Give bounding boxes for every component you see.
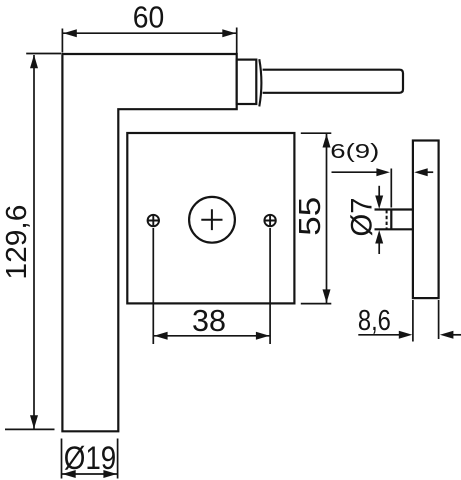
dimension 6(9) extension line at stub face [390,169,392,208]
side view rosette plate [413,141,439,299]
dimension 6(9) line left part with right arrow [332,171,378,173]
dimension 38 arrows [154,332,168,340]
dimension 55 extension lines [301,133,332,303]
side view hub stub outline [375,210,413,230]
dimension 6(9) right arrow pointing left at plate face [427,171,433,173]
dimension diameter7 upper arrow [378,186,380,197]
dimension 38 extension lines from screws [153,228,270,344]
dimension 60 extension lines [62,28,236,55]
dimension diameter19 extension lines [62,439,118,479]
dimension 8,6 left line with right arrow [358,334,399,336]
dimension diameter7 lower arrow [378,243,380,254]
dimension diameter19 line [62,473,117,475]
dimension 55 arrows [323,134,331,148]
right screw symbol [264,214,277,227]
dimension 8,6 right line with left arrow [453,334,461,336]
svg-text:Ø7: Ø7 [345,198,378,237]
dimension 8,6 extension lines [413,300,439,342]
dimension 38 line [154,335,270,337]
dimension 129,6 line [33,55,35,429]
central spindle hole circle [189,197,235,243]
dimension 60 arrows [63,29,77,37]
svg-text:55: 55 [292,197,327,236]
dimension 129,6 arrows [30,55,38,69]
neck collar ring [259,59,261,106]
svg-text:60: 60 [133,0,165,35]
svg-text:Ø19: Ø19 [64,440,117,476]
dimension 129,6 extension lines [5,54,61,430]
left screw symbol [147,214,160,227]
handle lever L-shape front view [62,54,236,431]
dimension 60 line [63,32,236,34]
svg-text:129,6: 129,6 [1,205,33,280]
dimension diameter19 arrows [62,470,75,478]
svg-text:8,6: 8,6 [358,305,391,337]
svg-text:38: 38 [192,303,226,338]
square rosette plate front view [127,133,294,303]
svg-text:6(9): 6(9) [330,141,379,163]
center cross mark [201,209,222,230]
handle neck cylinder [237,60,257,104]
hub stub dashed 9mm variant line [386,210,388,229]
dimension 55 line [326,134,328,303]
spindle shaft [263,70,403,93]
